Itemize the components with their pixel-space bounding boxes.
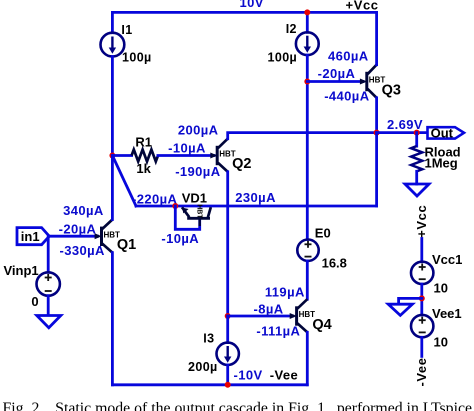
svg-text:-10µA: -10µA <box>168 140 206 155</box>
wire bottom rail -Vee <box>112 383 307 386</box>
diode VD1 (diode-connected HBT) <box>182 204 211 226</box>
transistor Q2 <box>210 139 235 172</box>
voltage source Vinp1 <box>37 272 60 295</box>
ground (Rload) <box>405 184 429 196</box>
svg-text:-20µA: -20µA <box>318 66 356 81</box>
ground (right column) <box>388 304 412 315</box>
svg-text:HBT: HBT <box>196 204 203 219</box>
svg-text:I3: I3 <box>203 331 214 345</box>
wire Vee1 bottom to -Vee flag <box>420 337 423 356</box>
svg-text:+Vcc: +Vcc <box>414 205 429 238</box>
svg-text:0: 0 <box>31 294 38 309</box>
node mid junction dot <box>419 295 425 301</box>
svg-text:119µA: 119µA <box>265 284 305 299</box>
node junction dot top rail I2 <box>304 9 310 15</box>
svg-text:1Meg: 1Meg <box>425 155 458 170</box>
wire I3 bottom <box>226 365 229 385</box>
svg-text:Q1: Q1 <box>117 237 136 253</box>
svg-text:1k: 1k <box>136 161 151 176</box>
svg-text:Vcc1: Vcc1 <box>432 252 462 267</box>
svg-text:Q3: Q3 <box>382 83 401 99</box>
svg-text:E0: E0 <box>315 225 331 240</box>
svg-text:-10µA: -10µA <box>161 231 199 246</box>
svg-text:100µ: 100µ <box>268 50 298 64</box>
svg-text:230µA: 230µA <box>235 190 276 205</box>
wire Vinp1 top <box>47 236 50 272</box>
wire R1 to Q2 base <box>158 154 214 157</box>
wire Q1 collector up to junction <box>111 156 114 220</box>
wire in1 to Q1 base <box>49 235 97 238</box>
svg-text:-Vee: -Vee <box>270 367 298 382</box>
wire Q4 emitter down <box>306 332 309 385</box>
wire diagonal junction to VD1 row <box>112 156 136 207</box>
node Rload junction dot <box>414 130 420 136</box>
node Out junction dot <box>374 130 380 136</box>
svg-text:-330µA: -330µA <box>60 243 106 258</box>
svg-text:-10V: -10V <box>234 367 263 382</box>
wire Rload bottom <box>415 171 418 184</box>
node VD1 junction dot <box>172 203 178 209</box>
svg-text:VD1: VD1 <box>182 191 207 206</box>
resistor R1 <box>132 150 158 162</box>
svg-text:Fig. 2. Static mode of the o: Fig. 2. Static mode of the output cascad… <box>3 400 473 411</box>
svg-text:Vee1: Vee1 <box>432 306 462 321</box>
wire I3 top <box>226 316 229 343</box>
wire I2 bottom through Q3 base junction down to E0 <box>306 55 309 239</box>
node Q3 base junction dot <box>304 79 310 85</box>
transistor Q3 <box>360 65 385 98</box>
svg-text:-220µA: -220µA <box>132 191 178 206</box>
wire Q4 base <box>228 315 293 318</box>
svg-text:-20µA: -20µA <box>59 221 97 236</box>
wire +Vcc flag to Vcc1 <box>420 239 423 262</box>
wire Rload top <box>415 133 418 147</box>
svg-text:-440µA: -440µA <box>324 88 370 103</box>
svg-text:R1: R1 <box>135 135 152 150</box>
voltage source Vcc1 <box>411 262 433 284</box>
svg-text:Q4: Q4 <box>312 317 331 333</box>
svg-text:10: 10 <box>434 280 448 295</box>
port flag Out <box>428 126 465 141</box>
svg-text:-Vee: -Vee <box>414 357 429 386</box>
dependent source E0 <box>297 240 318 261</box>
svg-text:-111µA: -111µA <box>256 323 300 338</box>
svg-text:-190µA: -190µA <box>175 164 221 179</box>
wire junction to R1 <box>112 154 131 157</box>
voltage source Vee1 <box>411 315 433 337</box>
svg-text:200µ: 200µ <box>188 360 218 374</box>
node Q4 base junction dot <box>225 313 231 319</box>
wire Q3 emitter to Out node <box>375 98 378 133</box>
svg-text:Q2: Q2 <box>232 156 251 172</box>
transistor Q4 <box>290 299 315 332</box>
current source I3 <box>217 343 239 365</box>
wire Vinp1 bottom <box>47 296 50 315</box>
svg-text:16.8: 16.8 <box>322 256 347 271</box>
svg-text:-8µA: -8µA <box>254 302 284 317</box>
svg-text:10V: 10V <box>240 0 264 10</box>
port flag in1 <box>17 228 49 245</box>
svg-text:10: 10 <box>434 334 448 349</box>
svg-text:Vinp1: Vinp1 <box>4 263 39 278</box>
wire to ground (right column) <box>399 298 422 303</box>
current source I1 <box>101 33 125 57</box>
wire Q3 collector <box>375 12 378 64</box>
svg-text:+Vcc: +Vcc <box>346 0 379 12</box>
node A junction dot <box>109 153 115 159</box>
svg-text:I1: I1 <box>121 23 132 37</box>
wire Q1 emitter down to -Vee rail <box>111 253 114 385</box>
wire Q2 emitter down <box>226 172 229 316</box>
wire I2 top <box>306 12 309 32</box>
svg-text:I2: I2 <box>286 22 297 36</box>
svg-text:340µA: 340µA <box>63 203 104 218</box>
node I3 rail junction dot <box>225 382 231 388</box>
resistor Rload <box>411 146 422 171</box>
wire Out node down to VD1 row <box>375 133 378 206</box>
wire E0 bottom to Q4 collector <box>306 261 309 299</box>
transistor Q1 <box>95 220 120 253</box>
wire I1 top <box>111 12 114 32</box>
wire Q2 collector to Out row <box>228 133 377 139</box>
wire I1 bottom to junction <box>111 57 114 156</box>
wire VD1 row <box>136 205 377 208</box>
svg-text:Out: Out <box>431 126 454 141</box>
wire Vcc1 to Vee1 <box>420 284 423 315</box>
svg-text:in1: in1 <box>21 229 40 244</box>
current source I2 <box>296 32 319 55</box>
ground (Vinp1) <box>37 316 61 328</box>
svg-text:200µA: 200µA <box>178 123 219 138</box>
wire top rail +Vcc <box>112 11 376 14</box>
wire Out node to flag <box>377 131 428 134</box>
svg-text:460µA: 460µA <box>328 49 369 64</box>
wire VD1 base loop <box>175 206 199 229</box>
svg-text:2.69V: 2.69V <box>387 117 423 132</box>
svg-text:100µ: 100µ <box>122 51 152 65</box>
wire Q3 base <box>307 80 363 83</box>
